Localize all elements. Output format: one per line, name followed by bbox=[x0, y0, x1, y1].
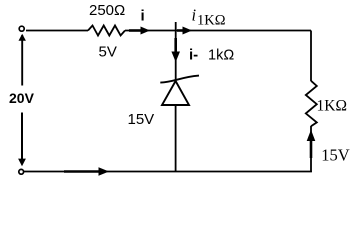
svg-text:1kΩ: 1kΩ bbox=[208, 48, 234, 64]
label i- 1kΩ bbox=[189, 47, 234, 64]
svg-text:i-: i- bbox=[189, 47, 198, 64]
svg-text:15V: 15V bbox=[321, 145, 350, 164]
svg-text:i: i bbox=[192, 5, 197, 24]
wire top right segment bbox=[125, 30, 311, 32]
svg-text:20V: 20V bbox=[9, 90, 35, 106]
svg-text:15V: 15V bbox=[128, 111, 155, 128]
wire left lower with down arrow bbox=[18, 113, 26, 167]
current arrow i1k (after junction) bbox=[177, 27, 192, 35]
svg-text:250Ω: 250Ω bbox=[89, 2, 125, 19]
current arrow up right branch bbox=[307, 130, 316, 158]
zener diode D1 bar bbox=[160, 76, 199, 83]
wire left upper with up arrow bbox=[19, 34, 26, 86]
wire bottom bbox=[22, 171, 312, 173]
terminal node bottom-left bbox=[19, 169, 24, 174]
terminal node top-left bbox=[19, 26, 24, 31]
junction tick / diode branch upper wire bbox=[175, 22, 177, 80]
current arrow bottom bbox=[64, 167, 109, 176]
current arrow i bbox=[129, 27, 150, 35]
svg-text:1KΩ: 1KΩ bbox=[197, 12, 226, 28]
label i 1KΩ bbox=[192, 5, 226, 28]
zener diode D1 triangle bbox=[162, 81, 189, 105]
svg-text:5V: 5V bbox=[99, 44, 117, 61]
svg-text:1KΩ: 1KΩ bbox=[317, 97, 347, 114]
wire top left segment bbox=[26, 30, 88, 32]
current arrow i- (down) bbox=[171, 38, 180, 62]
wire right vertical upper bbox=[310, 31, 312, 82]
svg-text:i: i bbox=[141, 7, 145, 24]
resistor R1 250ohm bbox=[88, 26, 125, 36]
wire right vertical lower bbox=[310, 126, 312, 172]
resistor R2 1Kohm right bbox=[306, 81, 317, 127]
wire diode branch lower bbox=[175, 105, 177, 172]
